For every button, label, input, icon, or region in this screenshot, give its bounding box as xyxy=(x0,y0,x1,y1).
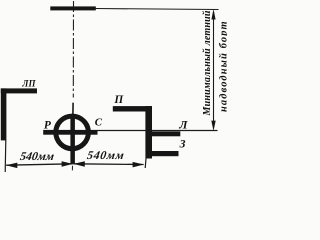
disc vertical bar xyxy=(70,114,75,164)
bottom dimension left arrow xyxy=(6,163,17,169)
centerline (solid approach to disc) xyxy=(72,103,74,115)
comb bar З xyxy=(152,151,179,156)
centerline (below dimension line, dot) xyxy=(71,166,73,171)
comb extension line down xyxy=(144,159,147,169)
svg-text:надводный борт: надводный борт xyxy=(218,20,227,112)
svg-text:ЛП: ЛП xyxy=(21,79,36,89)
ЛП extension line down xyxy=(4,140,7,172)
svg-text:П: П xyxy=(113,94,124,106)
svg-text:Р: Р xyxy=(44,119,52,131)
freeboard dimension arrow up xyxy=(211,9,215,20)
svg-text:Минимальный летний: Минимальный летний xyxy=(202,10,213,116)
forward perpendicular mark (ЛП): horizontal bar xyxy=(1,88,37,93)
svg-text:540мм: 540мм xyxy=(86,148,126,162)
deck line extension (thin line to right) xyxy=(95,9,219,10)
freeboard dimension line (vertical, right) xyxy=(213,12,215,127)
bottom dimension right arrow xyxy=(133,162,144,168)
bottom dimension arrow to centerline (right of left span) xyxy=(62,161,73,167)
svg-text:540мм: 540мм xyxy=(19,149,55,163)
freeboard dimension arrow down xyxy=(211,121,215,131)
svg-text:З: З xyxy=(179,138,186,151)
bottom dimension arrow from centerline (left of right span) xyxy=(73,161,84,167)
svg-text:Л: Л xyxy=(178,117,188,131)
waterline (thin horizontal through mark) xyxy=(97,130,218,132)
svg-text:С: С xyxy=(95,117,103,129)
comb top bar (П) xyxy=(113,106,152,111)
comb bar Л xyxy=(152,131,180,136)
centerline (dash-dot vertical axis, upper part) xyxy=(72,1,74,98)
forward perpendicular mark (ЛП): vertical bar xyxy=(1,88,7,140)
disc horizontal bar xyxy=(43,130,97,135)
bottom dimension line left span xyxy=(6,164,73,165)
bottom dimension line right span xyxy=(73,163,143,166)
deck line bar xyxy=(50,6,96,10)
load line disc (ring) xyxy=(56,116,89,149)
comb vertical bar xyxy=(145,106,152,158)
